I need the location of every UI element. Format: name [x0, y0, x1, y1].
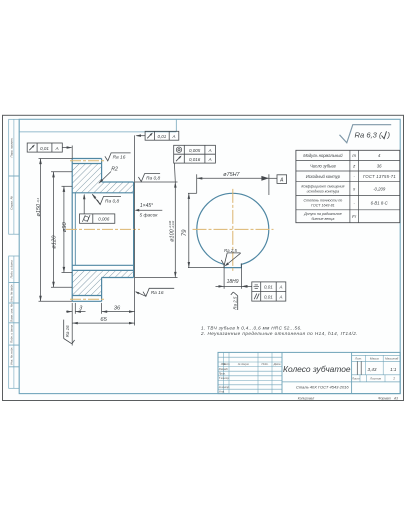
roughness Ra 16 left face (rotated): [64, 320, 75, 344]
title block grid: [218, 352, 400, 393]
section centre lines: [66, 161, 140, 300]
margin cell Взам. инв. №: [9, 303, 20, 323]
dimension d75H7: [197, 172, 269, 195]
svg-text:Т.контр.: Т.контр.: [219, 376, 230, 380]
svg-text:ø100: ø100: [169, 228, 175, 241]
svg-text:79: 79: [182, 229, 188, 236]
svg-text:Взам. инв. №: Взам. инв. №: [10, 303, 14, 322]
general roughness Ra 6,3: [340, 125, 392, 143]
svg-text:0,01: 0,01: [264, 285, 273, 290]
runout frame left: [27, 143, 72, 159]
svg-text:1×45°: 1×45°: [140, 203, 153, 209]
svg-text:Модуль нормальный: Модуль нормальный: [303, 153, 343, 158]
svg-text:ø150: ø150: [36, 203, 42, 216]
svg-text:-0,4: -0,4: [36, 197, 40, 203]
svg-text:R2: R2: [111, 167, 118, 173]
roughness Ra 16 top: [105, 153, 131, 161]
dimension 18H9: [216, 264, 252, 289]
svg-text:Ra 16: Ra 16: [113, 155, 126, 161]
svg-text:А3: А3: [393, 396, 398, 400]
svg-text:2. Неуказанные предельные откл: 2. Неуказанные предельные отклонения по …: [200, 331, 358, 336]
margin cell Perv. primen.: [9, 119, 20, 176]
roughness Ra 0,8 hub: [138, 174, 160, 182]
table row teeth: [310, 164, 382, 169]
svg-text:Лит.: Лит.: [354, 357, 362, 361]
svg-text:Колесо зубчатое: Колесо зубчатое: [283, 364, 351, 374]
dimension 65: [72, 317, 134, 324]
svg-text:ГОСТ 13755-71: ГОСТ 13755-71: [363, 174, 396, 179]
keyway slot: [224, 263, 241, 267]
bore circle view: [197, 193, 269, 265]
svg-text:ГОСТ 1643-81: ГОСТ 1643-81: [311, 204, 335, 208]
svg-text:m: m: [352, 153, 356, 158]
svg-text:Ra 16: Ra 16: [151, 290, 164, 296]
svg-text:Fr: Fr: [352, 214, 357, 219]
svg-text:Ra 2,5: Ra 2,5: [233, 296, 238, 309]
roughness Ra 16 bottom: [135, 288, 174, 296]
margin cell Инв. № подл.: [9, 345, 20, 367]
svg-text:А: А: [55, 146, 59, 151]
svg-text:Ra 0,8: Ra 0,8: [146, 175, 160, 181]
svg-text:А: А: [208, 148, 212, 153]
svg-text:исходного контура: исходного контура: [307, 189, 340, 193]
svg-text:Инв. № дубл.: Инв. № дубл.: [10, 284, 14, 302]
svg-text:1. ТВЧ зубьев h 0,4...0,6 мм H: 1. ТВЧ зубьев h 0,4...0,6 мм HRC 52...56…: [201, 325, 302, 330]
svg-text:0,01: 0,01: [264, 294, 273, 299]
gear section hatching: [72, 164, 133, 296]
keyway tolerance frame: [242, 282, 286, 301]
svg-text:Коэффициент смещения: Коэффициент смещения: [301, 184, 344, 188]
svg-text:18Н9: 18Н9: [227, 279, 239, 285]
svg-text:Перв. примен.: Перв. примен.: [10, 137, 14, 157]
concentricity/runout frame: [174, 145, 216, 182]
margin cell: [9, 367, 20, 389]
svg-text:36: 36: [377, 164, 382, 169]
svg-text:Допуск на радиальное: Допуск на радиальное: [303, 212, 342, 216]
svg-text:Лист: Лист: [351, 377, 360, 381]
svg-text:Копировал: Копировал: [298, 396, 315, 400]
dimension 79: [182, 193, 224, 267]
svg-text:1: 1: [393, 377, 395, 381]
dimension d150: [36, 159, 72, 302]
roughness Ra 2,5 bore: [221, 248, 240, 266]
svg-text:Ra 0,8: Ra 0,8: [105, 198, 119, 204]
sheet outline: [3, 115, 404, 400]
svg-text:65: 65: [100, 317, 107, 323]
margin cell Sprav. No: [9, 176, 20, 234]
table row contour: [306, 174, 396, 179]
svg-text:Сталь 40Х ГОСТ 4543-2016: Сталь 40Х ГОСТ 4543-2016: [296, 385, 349, 390]
dimension 36: [102, 306, 135, 313]
drawing frame: [19, 119, 400, 393]
svg-text:Исходный контур: Исходный контур: [306, 174, 341, 179]
svg-text:А: А: [278, 285, 282, 290]
svg-text:Справ. №: Справ. №: [10, 195, 14, 209]
svg-text:Разраб.: Разраб.: [219, 367, 229, 371]
chamfer note 1x45: [135, 203, 163, 219]
svg-text:биение венца: биение венца: [311, 217, 334, 221]
dimension d120: [51, 172, 72, 287]
svg-text:А: А: [278, 294, 282, 299]
datum A flag: [269, 175, 287, 184]
table row runout tol: [303, 212, 357, 221]
roughness Ra 2,5 keyway (rotated): [231, 292, 238, 310]
svg-text:ø120: ø120: [51, 235, 57, 249]
svg-text:Ra 2,5: Ra 2,5: [224, 248, 237, 253]
svg-text:36: 36: [114, 306, 121, 312]
svg-text:3,43: 3,43: [368, 367, 377, 372]
svg-text:Ra 6,3 (: Ra 6,3 (: [355, 131, 383, 140]
svg-text:0,005: 0,005: [189, 148, 201, 153]
technical notes: [200, 325, 358, 336]
svg-text:0,006: 0,006: [98, 217, 110, 222]
svg-text:Листов: Листов: [369, 377, 381, 381]
svg-text:Число зубьев: Число зубьев: [310, 164, 336, 169]
gear parameter table: [296, 150, 400, 222]
svg-text:Подп. и дата: Подп. и дата: [10, 325, 14, 343]
runout frame top: [135, 131, 178, 140]
svg-text:ø90: ø90: [62, 222, 68, 233]
svg-text:Инв. № подл.: Инв. № подл.: [10, 347, 14, 365]
svg-text:А: А: [279, 177, 284, 183]
cylindricity frame 0,006: [80, 194, 115, 224]
svg-text:+0,012: +0,012: [171, 220, 175, 229]
svg-text:Утв.: Утв.: [219, 390, 225, 394]
extension lines bottom: [72, 135, 134, 345]
svg-text:Ra 16: Ra 16: [65, 325, 70, 337]
svg-text:Подп. и дата: Подп. и дата: [10, 260, 14, 278]
svg-text:А: А: [171, 134, 175, 139]
title block texts: [219, 357, 399, 394]
margin cell Подп. и дата: [9, 323, 20, 345]
dimension d90: [62, 186, 73, 272]
svg-text:Масштаб: Масштаб: [385, 357, 398, 361]
table row accuracy: [303, 199, 388, 208]
svg-text:Дата: Дата: [273, 362, 281, 366]
svg-text:0,01: 0,01: [158, 134, 167, 139]
svg-text:Формат: Формат: [378, 396, 391, 400]
svg-text:Пров.: Пров.: [219, 372, 226, 376]
margin cell Инв. № дубл.: [9, 283, 20, 303]
svg-text:1:1: 1:1: [390, 367, 397, 372]
svg-text:№ докум.: № докум.: [238, 362, 250, 366]
margin cell Подп. и дата: [9, 256, 20, 283]
svg-text:ø75Н7: ø75Н7: [223, 172, 240, 178]
svg-text:0,016: 0,016: [189, 157, 201, 162]
svg-text:Масса: Масса: [370, 357, 379, 361]
svg-text:Подп.: Подп.: [262, 362, 269, 366]
dimension 3: [66, 306, 85, 313]
svg-text:Степень точности по: Степень точности по: [303, 199, 342, 203]
svg-text:6-В1 8-С: 6-В1 8-С: [371, 201, 389, 206]
keyway slot mask: [225, 261, 241, 267]
dimension d100: [135, 182, 178, 278]
svg-text:-0,209: -0,209: [373, 187, 386, 192]
svg-text:): ): [387, 131, 391, 140]
fillet R2: [98, 167, 118, 184]
svg-text:Н.контр.: Н.контр.: [219, 385, 230, 389]
table row shift coeff: [301, 184, 386, 193]
svg-text:0,01: 0,01: [40, 146, 49, 151]
svg-text:5 фасок: 5 фасок: [140, 213, 159, 219]
gear section outline: [72, 159, 133, 302]
roughness Ra 0,8 web: [92, 194, 121, 205]
circle centre lines: [193, 189, 274, 272]
svg-text:А: А: [208, 157, 212, 162]
svg-text:Лист: Лист: [222, 362, 231, 366]
kopiroval / format: [298, 396, 398, 400]
table row module: [303, 153, 381, 158]
top designation strip: [19, 119, 176, 132]
